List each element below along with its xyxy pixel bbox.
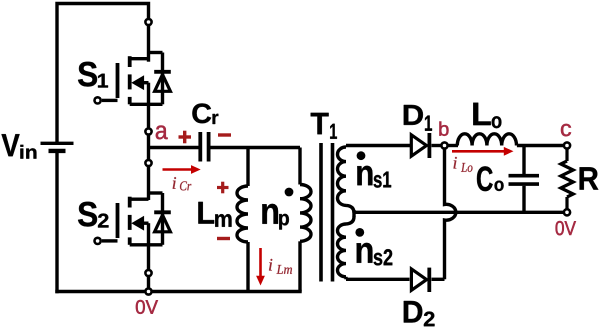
- polarity - Cr: [218, 133, 231, 136]
- capacitor Cr: [200, 132, 208, 162]
- S2 arrow: [131, 216, 144, 231]
- polarity - Lm: [217, 237, 230, 240]
- wire center tap to output return: [354, 211, 567, 214]
- wire bottom rail: [57, 290, 300, 293]
- wire left rail bottom: [55, 151, 58, 292]
- label iCr: [173, 177, 192, 190]
- label b: [439, 121, 448, 135]
- winding ns1: [338, 146, 355, 213]
- label D2: [404, 301, 435, 326]
- S1 body-diode: [154, 72, 171, 92]
- transformer T1 core: [321, 143, 333, 282]
- label 0V right: [556, 221, 576, 235]
- label Lm: [198, 202, 231, 227]
- node S2 drain: [145, 160, 151, 166]
- S1 arrow: [131, 75, 144, 90]
- arrow iLo: [452, 147, 514, 156]
- S2 gate terminal: [95, 238, 101, 244]
- dot np: [285, 188, 294, 197]
- node 0V left: [145, 288, 151, 294]
- S2 body-diode: [154, 212, 171, 232]
- wire Cr to np box top: [210, 146, 300, 149]
- wire D2 to b column: [432, 278, 445, 281]
- inductor Lm: [237, 186, 248, 242]
- wire D1 to b: [432, 144, 442, 147]
- node S1 drain: [145, 19, 151, 25]
- wire np branch top: [298, 148, 301, 185]
- label Cr: [192, 103, 218, 124]
- label S2: [78, 202, 109, 228]
- wire node a to Cr: [149, 146, 199, 149]
- label iLo: [454, 157, 473, 172]
- wire Lm branch bottom: [246, 242, 249, 292]
- label ns1: [357, 166, 391, 188]
- arrow iLm: [256, 248, 265, 286]
- dot ns2: [355, 228, 364, 237]
- wire b to Lo: [449, 144, 459, 147]
- label c: [561, 124, 571, 136]
- wire S2 source to rail: [147, 277, 150, 292]
- diode D2: [411, 268, 429, 292]
- label S1: [78, 62, 108, 88]
- diode D1: [411, 133, 429, 158]
- node 0V right: [564, 209, 570, 215]
- label Co: [477, 166, 504, 191]
- label a: [156, 126, 168, 140]
- polarity + Cr: [179, 131, 192, 144]
- wire Lo to c: [517, 144, 564, 147]
- node b: [441, 142, 447, 148]
- wire ns2 to D2: [346, 278, 410, 281]
- wire S2 drain: [147, 167, 150, 201]
- label 0V left: [136, 300, 158, 314]
- battery Vin: [41, 143, 74, 151]
- label np: [262, 204, 289, 230]
- wire center-tap link: [352, 210, 355, 217]
- wire ns1 to D1: [346, 144, 411, 147]
- transistor S1: [102, 53, 163, 128]
- winding ns2: [337, 217, 354, 280]
- transistor S2: [102, 193, 163, 270]
- wire b down with hop: [445, 150, 456, 280]
- label ns2: [357, 243, 393, 266]
- wire S1 drain: [147, 26, 150, 61]
- label D1: [404, 105, 432, 131]
- polarity + Lm: [217, 182, 229, 194]
- node S2 source: [145, 270, 151, 276]
- node a: [145, 128, 151, 134]
- wire Lm branch top: [246, 148, 249, 187]
- resistor R: [561, 150, 573, 209]
- label iLm: [269, 259, 292, 274]
- wire top rail: [57, 4, 149, 144]
- arrow iCr: [163, 165, 201, 174]
- inductor Lo: [457, 134, 516, 146]
- dot ns1: [357, 151, 366, 160]
- wire a to S2: [147, 135, 150, 160]
- label Lo: [473, 103, 501, 128]
- node c: [564, 142, 570, 148]
- capacitor Co: [509, 146, 540, 213]
- S1 gate terminal: [95, 97, 101, 103]
- label R: [580, 167, 599, 189]
- label T1: [311, 113, 337, 139]
- winding np: [300, 185, 311, 242]
- label Vin: [2, 134, 37, 158]
- wire np branch bottom: [298, 241, 301, 291]
